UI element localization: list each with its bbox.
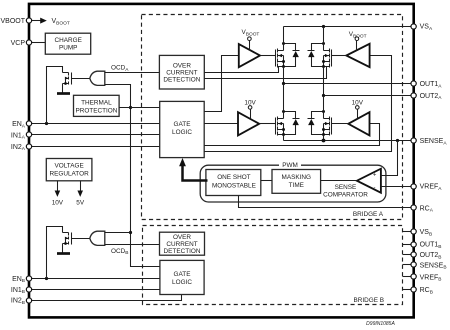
svg-text:+: + [373,173,377,179]
wire EN_A to Q5 drain [47,67,63,124]
sense comparator U2 [323,169,381,199]
gate G1 (OCD A) [90,71,105,85]
pin VS_B [411,229,432,238]
gate G2 (OCD B) [90,231,105,245]
one shot monostable box [206,170,261,196]
wire gate logic to driver A1 (VBOOT left) [205,56,239,112]
svg-text:SENSEA: SENSEA [420,138,448,146]
svg-text:VREFA: VREFA [420,184,443,192]
wire VREF_B stub [403,276,414,278]
svg-text:CHARGE: CHARGE [55,37,82,44]
voltage regulator box [46,159,92,181]
wire 10V output arrow [52,181,64,207]
wire M2 drain to VS rail [323,27,325,51]
svg-text:OUT1B: OUT1B [420,242,442,250]
bridge A dashed box [142,15,403,220]
charge pump U1 [45,33,90,54]
svg-text:VOLTAGE: VOLTAGE [54,162,83,169]
wire VCP to charge pump [32,42,47,44]
pin EN_B [12,276,32,284]
over current detection B box [160,232,205,255]
svg-text:ENB: ENB [12,276,25,284]
svg-text:VBOOT: VBOOT [52,18,70,26]
junction OUT1 [282,82,285,85]
svg-text:10V: 10V [352,100,364,107]
wire OCD sense 1 (to OUT1 node) [205,67,279,73]
svg-text:RCB: RCB [420,287,433,295]
svg-text:GATE: GATE [174,271,191,278]
transistor M2 (high-side right) with body diode D2 [308,42,332,68]
wire OUT1_B stub [403,244,414,246]
svg-text:DETECTION: DETECTION [163,76,200,83]
pin VREF_B [411,274,442,283]
junction fault bus x OCD_B [129,231,132,234]
transistor M3 (low-side left) with body diode D3 [276,110,300,136]
masking time box [272,170,321,194]
pin VREF_A [411,184,442,192]
svg-text:SENSE: SENSE [335,184,357,191]
svg-text:ENA: ENA [12,121,26,129]
junction fault bus x thermal [129,106,132,109]
pin VCP [11,40,32,47]
svg-text:ONE SHOT: ONE SHOT [217,174,250,181]
wire comparator output to masking time [321,180,357,182]
pin IN2_A [11,144,32,152]
svg-text:IN1A: IN1A [11,132,26,140]
pin RC_B [411,287,433,295]
svg-text:LOGIC: LOGIC [172,279,192,286]
svg-text:10V: 10V [244,100,256,107]
driver A2 triangle (VBOOT right) [346,31,369,67]
wire gate logic to driver A4 (10V right) [205,124,380,146]
pin OUT2_A [411,93,442,101]
svg-text:LOGIC: LOGIC [172,129,192,136]
wire RC_B stub [403,289,414,291]
wire one shot output arrow to gate logic [179,158,207,181]
pin RC_A [411,205,434,214]
bridge B dashed box [143,226,403,305]
over current detection A box [159,55,204,89]
svg-text:10V: 10V [52,199,64,206]
wire SENSE_B stub [403,264,414,266]
driver A3 triangle (10V left) [238,100,259,136]
OUT1 rail [284,83,414,85]
pin OUT2_B [411,252,442,260]
wire IN2_B [32,295,182,301]
wire EN_B to Q6 drain [47,227,63,279]
junction OUT2 [322,94,325,97]
svg-text:DETECTION: DETECTION [164,248,201,255]
svg-text:PWM: PWM [282,162,298,169]
transistor Q6 (EN_B pull-down) with ground [57,233,91,254]
svg-text:VSB: VSB [420,229,433,237]
junction EN_A tap [45,122,48,125]
wire M4 drain to OUT2 [323,96,325,119]
svg-text:VREFB: VREFB [420,274,442,282]
wire OCD_A to detection box [105,72,160,74]
gate logic B box [160,260,204,294]
svg-text:OUT1A: OUT1A [420,81,443,89]
svg-text:VBOOT: VBOOT [242,29,260,37]
svg-text:GATE: GATE [174,121,191,128]
pin VS_A [411,24,433,32]
junction sense tap [396,139,399,142]
svg-text:PUMP: PUMP [59,45,77,52]
gate logic A box [160,101,205,157]
pin SENSE_B [411,262,447,271]
svg-text:OUT2B: OUT2B [420,252,442,260]
pin VBOOT [0,18,31,25]
pin IN1_B [11,287,32,295]
wire one shot to masking time [261,180,273,182]
svg-text:-: - [374,185,376,191]
transistor M1 (high-side left) with body diode D1 [276,42,300,68]
svg-text:OUT2A: OUT2A [420,93,443,101]
wire M2 source to OUT2 [323,67,325,96]
wire 5V output arrow [76,181,85,207]
wire EN_B [32,278,160,280]
svg-text:SENSEB: SENSEB [420,262,447,270]
driver A1 triangle (VBOOT left) [239,29,260,67]
transistor M4 (low-side right) with body diode D4 [308,110,332,136]
svg-text:MONOSTABLE: MONOSTABLE [212,182,256,189]
wire M1 drain to VS rail [283,27,285,51]
svg-text:MASKING: MASKING [282,174,312,181]
svg-text:REGULATOR: REGULATOR [50,170,90,177]
svg-text:BRIDGE B: BRIDGE B [353,297,384,304]
pin EN_A [12,121,32,130]
svg-text:VBOOT: VBOOT [0,18,25,25]
OUT2 rail [324,95,414,97]
wire comparator - input to VREF_A [381,186,414,188]
wire IN1_B [32,289,160,291]
wire M3 source to sense rail [283,135,285,141]
wire IN1_A [32,134,160,136]
svg-text:VSA: VSA [420,24,433,32]
thermal protection box [74,95,120,116]
VS_A rail [284,26,414,28]
wire A3 to M3 gate [260,123,276,125]
pin SENSE_A [411,138,447,147]
svg-text:OVER: OVER [173,62,191,69]
wire EN_A [32,123,160,125]
svg-text:IN2A: IN2A [11,144,26,152]
wire IN2_A [32,146,160,148]
wire VS_B stub [403,231,414,233]
wire M4 source to sense rail [323,135,325,141]
wire G2 upper input to fault bus [105,232,131,234]
svg-text:VBOOT: VBOOT [349,31,367,39]
svg-text:RCA: RCA [420,205,434,213]
wire VBOOT arrow [32,18,70,27]
svg-text:PROTECTION: PROTECTION [75,107,117,114]
svg-text:TIME: TIME [289,182,304,189]
junction VS rail right [322,25,325,28]
SENSE_A rail [284,140,414,142]
svg-text:OCDB: OCDB [111,248,128,256]
wire A4 to M4 gate [332,123,349,125]
wire M1 source to OUT1 [283,67,285,85]
wire thermal to gate logic A [120,107,160,109]
wire gate logic to driver A3 (10V left) [205,123,239,125]
wire OCD_B to detection box [105,244,160,246]
wire OCD sense 2 (to OUT2 node) [205,67,327,79]
svg-text:D99IN1085A: D99IN1085A [366,321,395,327]
svg-text:BRIDGE A: BRIDGE A [353,211,384,218]
svg-text:IN2B: IN2B [11,298,25,306]
svg-text:VCP: VCP [11,40,26,47]
pin OUT1_A [411,81,442,90]
wire M3 drain to OUT1 [283,84,285,119]
wire gate logic to driver A2 (VBOOT right) [205,56,392,152]
svg-text:THERMAL: THERMAL [81,100,112,107]
PWM stadium outline [200,159,386,203]
junction EN_B tap [45,277,48,280]
wire one shot to RC_A [239,196,414,208]
pin IN1_A [11,132,32,141]
wire A2 to M2 gate [332,55,347,57]
svg-text:IN1B: IN1B [11,287,25,295]
pin OUT1_B [411,242,442,250]
svg-text:COMPARATOR: COMPARATOR [323,192,368,199]
junction sense rail [322,139,326,143]
driver A4 triangle (10V right) [348,100,369,136]
svg-text:5V: 5V [76,199,85,206]
wire G1 lower input / fault bus down [105,85,160,267]
wire A1 to M1 gate [261,55,276,57]
pin IN2_B [11,298,32,306]
wire OUT2_B stub [403,254,414,256]
transistor Q5 (EN_A pull-down) [57,73,91,94]
svg-text:OCDA: OCDA [111,65,129,73]
wire comparator + input to sense rail [381,141,398,176]
